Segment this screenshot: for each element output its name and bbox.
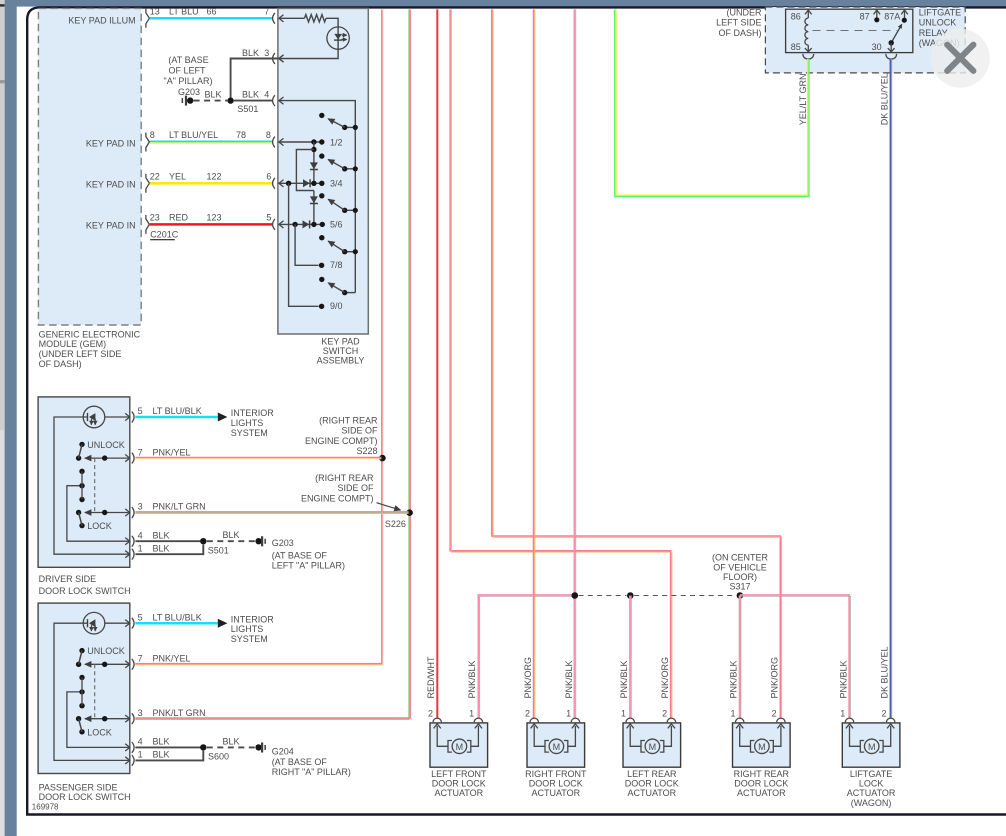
label driver switch (39, 574, 131, 596)
svg-text:3: 3 (138, 708, 143, 718)
node row 9/0 (289, 183, 343, 311)
svg-text:1: 1 (621, 709, 626, 719)
svg-text:DOOR LOCK: DOOR LOCK (625, 779, 679, 789)
relay switch blade 30-87A (889, 18, 907, 46)
svg-text:(WAGON): (WAGON) (851, 798, 892, 808)
svg-text:86: 86 (791, 12, 801, 22)
LED (keypad illumination) (327, 27, 349, 49)
svg-text:(AT BASE: (AT BASE (168, 55, 208, 65)
svg-text:PNK/ORG: PNK/ORG (770, 657, 780, 699)
svg-text:G203: G203 (178, 87, 200, 97)
svg-text:4: 4 (264, 90, 269, 100)
svg-text:PNK/LT GRN: PNK/LT GRN (153, 502, 206, 512)
svg-text:BLK: BLK (153, 737, 170, 747)
wire LED to pin3 (279, 49, 338, 62)
svg-text:1: 1 (840, 709, 845, 719)
svg-text:M: M (456, 742, 464, 752)
svg-text:87: 87 (860, 12, 870, 22)
svg-text:5: 5 (138, 612, 143, 622)
wire RED pin23 to pin5 (150, 213, 275, 230)
svg-text:ACTUATOR: ACTUATOR (627, 788, 676, 798)
key pad switch blade 3 (319, 193, 358, 213)
key pad switch blade 1 (319, 113, 358, 130)
key pad switch blade 2 (319, 153, 358, 171)
svg-text:BLK: BLK (153, 750, 170, 760)
svg-text:3: 3 (138, 502, 143, 512)
svg-text:1: 1 (469, 709, 474, 719)
svg-text:1: 1 (566, 709, 571, 719)
wire PNK/ORG feed to left rear actuator (450, 9, 672, 718)
svg-text:7/8: 7/8 (330, 260, 343, 270)
svg-text:ACTUATOR: ACTUATOR (531, 788, 580, 798)
svg-text:S600: S600 (208, 752, 229, 762)
wire PNK/ORG feed to right rear actuator (492, 9, 782, 718)
svg-text:PNK/LT GRN: PNK/LT GRN (153, 708, 206, 718)
svg-text:DK BLU/YEL: DK BLU/YEL (880, 73, 890, 125)
label passenger switch (39, 782, 131, 802)
wire PNK/BLK S317 to left rear pin1 (630, 596, 631, 719)
wire RED/WHT feed column (426, 9, 437, 718)
diode D4 (row 5/6 series) (303, 220, 310, 228)
svg-text:BLK: BLK (153, 530, 170, 540)
svg-text:KEY PAD: KEY PAD (321, 337, 360, 347)
svg-text:BLK: BLK (242, 90, 259, 100)
relay U1 contact/coil box (786, 9, 913, 52)
svg-text:S501: S501 (208, 545, 229, 555)
wire BLK pin3 (231, 48, 284, 97)
svg-text:BLK: BLK (222, 736, 239, 746)
ground G203 (keypad) (164, 55, 213, 106)
svg-text:7: 7 (138, 447, 143, 457)
key pad switch blade 4 (319, 235, 358, 254)
svg-text:(AT BASE OF: (AT BASE OF (272, 757, 328, 767)
diode D2 (row 3/4 series) (303, 179, 310, 187)
ground G203 (driver) (272, 538, 345, 571)
svg-text:7: 7 (138, 654, 143, 664)
wire BLK rail from pin4 (279, 97, 355, 293)
svg-text:UNLOCK: UNLOCK (919, 18, 957, 28)
splice S226 (301, 473, 413, 529)
svg-text:2: 2 (662, 709, 667, 719)
svg-text:LOCK: LOCK (87, 521, 112, 531)
svg-text:1: 1 (730, 709, 735, 719)
svg-text:SIDE OF: SIDE OF (337, 483, 374, 493)
svg-text:M: M (758, 742, 766, 752)
svg-text:LT BLU: LT BLU (169, 7, 199, 17)
relay liftgate unlock (dashed connector box) (716, 7, 965, 73)
wire PNK/LT GRN feed column (135, 9, 410, 719)
node row 1/2 (279, 137, 343, 147)
svg-text:9/0: 9/0 (330, 301, 343, 311)
svg-text:PNK/ORG: PNK/ORG (523, 657, 533, 699)
svg-text:SYSTEM: SYSTEM (231, 428, 268, 438)
module GEM (Generic Electronic Module) box (38, 8, 141, 368)
svg-text:S317: S317 (729, 582, 750, 592)
svg-text:1: 1 (138, 543, 143, 553)
svg-text:DOOR LOCK SWITCH: DOOR LOCK SWITCH (39, 792, 131, 802)
svg-text:ENGINE COMPT): ENGINE COMPT) (305, 436, 378, 446)
svg-text:BLK: BLK (153, 543, 170, 553)
svg-text:DOOR LOCK: DOOR LOCK (432, 779, 486, 789)
svg-text:LOCK: LOCK (87, 727, 112, 737)
svg-text:22: 22 (150, 172, 160, 182)
resistor (keypad illumination) (305, 15, 327, 22)
svg-text:5: 5 (138, 406, 143, 416)
actuator left front door lock (428, 660, 488, 798)
svg-text:(UNDER LEFT SIDE: (UNDER LEFT SIDE (39, 349, 122, 359)
svg-text:PNK/YEL: PNK/YEL (153, 447, 191, 457)
wire resistor to LED (326, 18, 338, 27)
wire PNK/BLK S317 to liftgate pin1 (740, 595, 851, 719)
diode D1 (1/2 to 3/4) (310, 142, 318, 183)
wire BLK pin4 (234, 90, 275, 106)
svg-text:3/4: 3/4 (330, 179, 343, 189)
svg-text:LT BLU/BLK: LT BLU/BLK (153, 612, 202, 622)
svg-text:66: 66 (207, 7, 217, 17)
svg-text:7: 7 (264, 7, 269, 17)
svg-text:DOOR LOCK SWITCH: DOOR LOCK SWITCH (39, 586, 131, 596)
node row 7/8 (295, 224, 342, 270)
svg-text:LEFT "A" PILLAR): LEFT "A" PILLAR) (272, 561, 345, 571)
wire LT BLU/YEL pin8 to pin8 (150, 130, 275, 147)
svg-text:PNK/ORG: PNK/ORG (660, 657, 670, 699)
splice S317 dashed bus (572, 552, 769, 599)
svg-text:LEFT SIDE: LEFT SIDE (716, 18, 761, 28)
svg-text:(UNDER: (UNDER (727, 7, 762, 17)
svg-text:UNLOCK: UNLOCK (87, 440, 125, 450)
svg-text:(ON CENTER: (ON CENTER (712, 552, 769, 562)
svg-text:13: 13 (150, 7, 160, 17)
wire YEL pin22 to pin6 (150, 172, 275, 189)
wire PNK/BLK S317 to right rear pin1 (740, 596, 741, 719)
svg-text:2: 2 (428, 709, 433, 719)
svg-text:RIGHT "A" PILLAR): RIGHT "A" PILLAR) (272, 767, 351, 777)
svg-text:2: 2 (772, 709, 777, 719)
svg-text:INTERIOR: INTERIOR (231, 614, 275, 624)
actuator right front door lock (523, 657, 587, 798)
svg-text:FLOOR): FLOOR) (723, 572, 757, 582)
svg-text:MODULE (GEM): MODULE (GEM) (39, 339, 107, 349)
wire PNK/BLK feed column to S317 (574, 9, 575, 718)
svg-text:PNK/BLK: PNK/BLK (619, 660, 629, 698)
svg-text:OF DASH): OF DASH) (718, 28, 761, 38)
svg-text:INTERIOR: INTERIOR (231, 408, 275, 418)
svg-text:BLK: BLK (242, 48, 259, 58)
svg-text:S501: S501 (237, 104, 258, 114)
actuator liftgate lock (wagon) (838, 660, 900, 807)
svg-text:LT BLU/BLK: LT BLU/BLK (153, 406, 202, 416)
node row 3/4 (279, 179, 343, 189)
actuator right rear door lock (729, 657, 791, 798)
svg-text:LIFTGATE: LIFTGATE (850, 769, 892, 779)
splice S228 (305, 415, 386, 461)
svg-text:"A" PILLAR): "A" PILLAR) (164, 76, 213, 86)
svg-text:M: M (649, 742, 657, 752)
close button (X) (931, 29, 990, 88)
svg-text:DK BLU/YEL: DK BLU/YEL (880, 646, 890, 698)
svg-text:C201C: C201C (150, 230, 179, 240)
svg-text:30: 30 (872, 42, 882, 52)
key pad switch assembly box (278, 8, 368, 365)
relay coil 86-85 (791, 10, 812, 52)
svg-text:ACTUATOR: ACTUATOR (847, 788, 896, 798)
svg-text:GENERIC ELECTRONIC: GENERIC ELECTRONIC (39, 329, 141, 339)
svg-text:3: 3 (264, 48, 269, 58)
wire LT BLU pin13 to pin7 (150, 7, 275, 24)
wire PNK/ORG feed to right front actuator (534, 9, 535, 718)
svg-text:23: 23 (150, 213, 160, 223)
switch driver side door lock (38, 397, 409, 567)
svg-text:KEY PAD ILLUM: KEY PAD ILLUM (68, 15, 135, 25)
svg-text:BLK: BLK (204, 90, 221, 100)
wire BLK dashed to G203 (194, 90, 228, 101)
svg-text:ACTUATOR: ACTUATOR (434, 788, 483, 798)
svg-text:M: M (553, 742, 561, 752)
svg-text:PASSENGER SIDE: PASSENGER SIDE (39, 782, 118, 792)
wire PNK/BLK left front pin1 to S317 (478, 595, 574, 719)
svg-text:87A: 87A (884, 12, 900, 22)
svg-text:OF VEHICLE: OF VEHICLE (713, 562, 767, 572)
svg-text:S228: S228 (356, 446, 377, 456)
svg-text:123: 123 (207, 213, 222, 223)
svg-text:RIGHT REAR: RIGHT REAR (734, 769, 790, 779)
svg-text:LEFT FRONT: LEFT FRONT (431, 769, 487, 779)
svg-text:78: 78 (236, 130, 246, 140)
wire bypass bracket (1/2 to 5/6) (296, 150, 314, 191)
svg-text:SIDE OF: SIDE OF (341, 426, 378, 436)
relay pin 87A (884, 10, 908, 22)
svg-text:122: 122 (207, 172, 222, 182)
svg-text:4: 4 (138, 737, 143, 747)
diode D3 (bypass to 5/6) (310, 191, 318, 225)
actuator left rear door lock (619, 657, 681, 798)
svg-text:RED: RED (169, 213, 189, 223)
svg-text:M: M (868, 742, 876, 752)
relay coil-blade link (dashed) (813, 30, 898, 32)
svg-text:5/6: 5/6 (330, 220, 343, 230)
wire keypad illumination (pin7) with resistor (279, 15, 305, 22)
svg-text:85: 85 (791, 42, 801, 52)
svg-text:ASSEMBLY: ASSEMBLY (317, 356, 365, 366)
svg-text:DOOR LOCK: DOOR LOCK (529, 779, 583, 789)
svg-text:6: 6 (266, 172, 271, 182)
svg-text:LOCK: LOCK (859, 779, 884, 789)
svg-text:PNK/BLK: PNK/BLK (564, 660, 574, 698)
svg-text:UNLOCK: UNLOCK (87, 646, 125, 656)
node row 5/6 (279, 220, 343, 230)
connector arcs under relay (803, 54, 814, 59)
svg-text:DOOR LOCK: DOOR LOCK (734, 779, 788, 789)
svg-text:PNK/BLK: PNK/BLK (729, 660, 739, 698)
svg-text:G203: G203 (272, 538, 294, 548)
wire YEL/LT GRN relay 85 loop to top (615, 9, 809, 196)
svg-text:SWITCH: SWITCH (323, 346, 359, 356)
svg-text:2: 2 (525, 709, 530, 719)
svg-text:1: 1 (138, 750, 143, 760)
svg-text:2: 2 (881, 709, 886, 719)
wire DK BLU/YEL relay 30 to liftgate actuator (880, 59, 892, 719)
svg-text:PNK/YEL: PNK/YEL (153, 654, 191, 664)
svg-text:KEY PAD IN: KEY PAD IN (86, 180, 136, 190)
svg-text:(RIGHT REAR: (RIGHT REAR (319, 415, 378, 425)
svg-text:ACTUATOR: ACTUATOR (737, 788, 786, 798)
svg-text:5: 5 (266, 213, 271, 223)
svg-text:8: 8 (266, 130, 271, 140)
svg-text:(RIGHT REAR: (RIGHT REAR (315, 473, 374, 483)
svg-text:LT BLU/YEL: LT BLU/YEL (169, 130, 218, 140)
svg-text:BLK: BLK (222, 530, 239, 540)
svg-text:S226: S226 (385, 519, 406, 529)
svg-text:8: 8 (150, 130, 155, 140)
svg-text:OF DASH): OF DASH) (39, 359, 82, 369)
ground G204 (272, 747, 351, 777)
svg-text:PNK/BLK: PNK/BLK (467, 660, 477, 698)
relay pin 30 (872, 42, 895, 52)
svg-text:YEL: YEL (169, 172, 186, 182)
svg-text:(AT BASE OF: (AT BASE OF (272, 550, 328, 560)
svg-text:PNK/BLK: PNK/BLK (838, 660, 848, 698)
wire PNK/YEL feed column (135, 9, 383, 665)
svg-text:LIGHTS: LIGHTS (231, 418, 264, 428)
switch passenger side door lock (38, 603, 409, 773)
svg-text:G204: G204 (272, 747, 294, 757)
svg-text:SYSTEM: SYSTEM (231, 634, 268, 644)
svg-text:LIGHTS: LIGHTS (231, 624, 264, 634)
svg-text:KEY PAD IN: KEY PAD IN (86, 220, 136, 230)
key pad switch blade 5 (319, 277, 355, 296)
svg-text:KEY PAD IN: KEY PAD IN (86, 138, 136, 148)
svg-text:4: 4 (138, 530, 143, 540)
relay pin 87 (860, 10, 881, 22)
svg-text:RIGHT FRONT: RIGHT FRONT (525, 769, 587, 779)
svg-text:OF LEFT: OF LEFT (168, 66, 206, 76)
svg-text:ENGINE COMPT): ENGINE COMPT) (301, 494, 374, 504)
svg-text:LIFTGATE: LIFTGATE (919, 7, 961, 17)
svg-text:RED/WHT: RED/WHT (426, 656, 436, 698)
splice S501 (keypad) (227, 97, 258, 114)
svg-text:169978: 169978 (32, 802, 59, 811)
connector C201C pins on GEM (146, 9, 179, 241)
svg-text:YEL/LT GRN: YEL/LT GRN (798, 74, 808, 126)
svg-text:LEFT REAR: LEFT REAR (627, 769, 677, 779)
svg-text:1/2: 1/2 (330, 137, 343, 147)
svg-text:DRIVER SIDE: DRIVER SIDE (39, 574, 97, 584)
